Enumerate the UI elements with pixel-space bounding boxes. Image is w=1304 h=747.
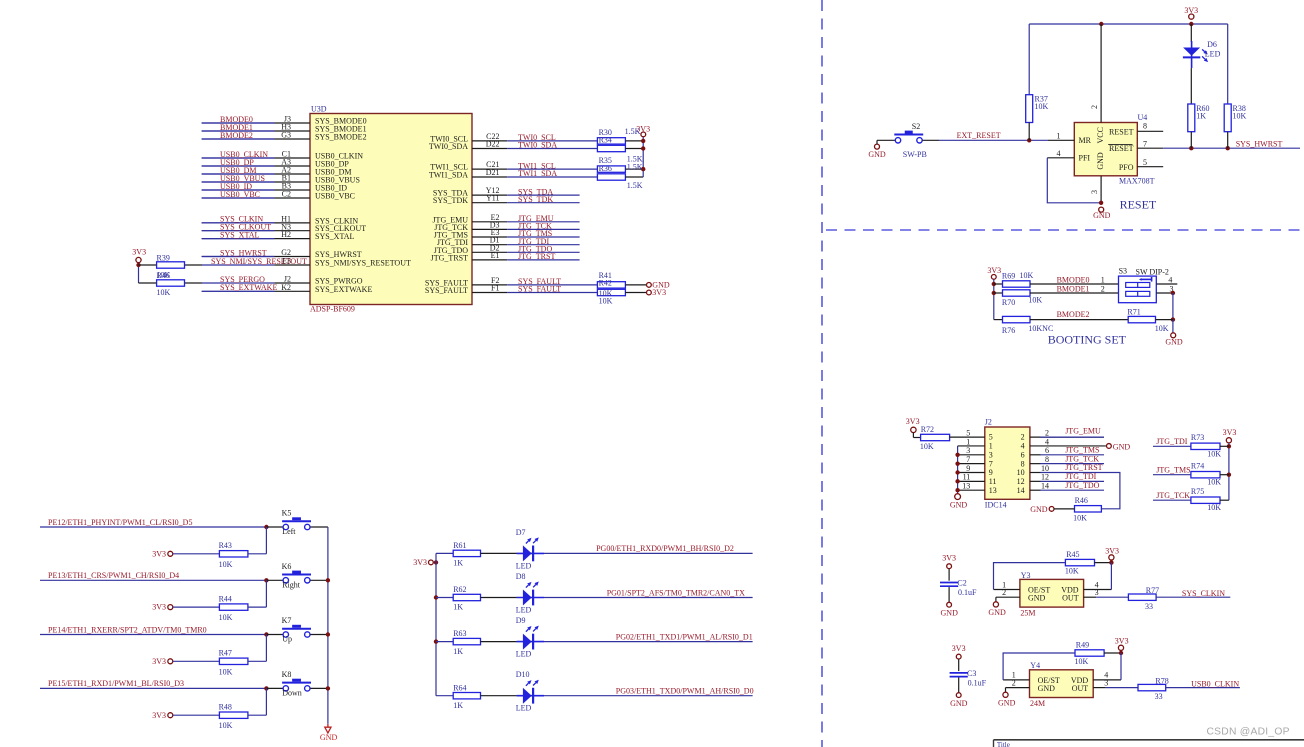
svg-text:K5: K5 — [282, 509, 292, 518]
svg-text:GND: GND — [950, 501, 968, 510]
svg-text:1K: 1K — [453, 701, 463, 710]
svg-text:R71: R71 — [1127, 308, 1140, 317]
svg-text:GND: GND — [868, 150, 886, 159]
svg-text:3V3: 3V3 — [152, 711, 166, 720]
svg-text:R34: R34 — [599, 136, 612, 145]
svg-text:10K: 10K — [1207, 503, 1221, 512]
svg-text:R75: R75 — [1191, 487, 1204, 496]
svg-text:1.5K: 1.5K — [627, 181, 643, 190]
svg-text:R70: R70 — [1002, 298, 1015, 307]
svg-text:MAX708T: MAX708T — [1119, 176, 1155, 185]
svg-text:SW-PB: SW-PB — [903, 150, 927, 159]
svg-text:1K: 1K — [453, 603, 463, 612]
svg-text:K8: K8 — [282, 670, 292, 679]
svg-text:SYS_TDK: SYS_TDK — [433, 196, 468, 205]
svg-text:1: 1 — [966, 437, 970, 446]
svg-text:JTG_TCK: JTG_TCK — [1156, 491, 1190, 500]
svg-text:E3: E3 — [282, 257, 291, 266]
svg-text:GND: GND — [941, 609, 959, 618]
svg-text:JTG_TRST: JTG_TRST — [1065, 463, 1102, 472]
svg-text:SYS_EXTWAKE: SYS_EXTWAKE — [315, 285, 372, 294]
svg-text:R43: R43 — [219, 541, 232, 550]
svg-text:R44: R44 — [219, 594, 232, 603]
svg-text:BMODE2: BMODE2 — [220, 131, 253, 140]
svg-text:10: 10 — [1017, 468, 1025, 477]
svg-text:D22: D22 — [486, 140, 500, 149]
svg-text:USB0_CLKIN: USB0_CLKIN — [1191, 680, 1239, 689]
svg-text:PG01/SPT2_AFS/TM0_TMR2/CAN0_TX: PG01/SPT2_AFS/TM0_TMR2/CAN0_TX — [607, 588, 745, 597]
svg-text:8: 8 — [1045, 455, 1049, 464]
svg-text:3V3: 3V3 — [152, 603, 166, 612]
svg-text:8: 8 — [1143, 121, 1147, 130]
svg-text:SYS_XTAL: SYS_XTAL — [315, 232, 354, 241]
svg-text:SYS_NMI/SYS_RESETOUT: SYS_NMI/SYS_RESETOUT — [315, 259, 411, 268]
svg-text:4: 4 — [1021, 442, 1025, 451]
svg-text:PE14/ETH1_RXERR/SPT2_ATDV/TM0_: PE14/ETH1_RXERR/SPT2_ATDV/TM0_TMR0 — [48, 625, 207, 634]
svg-text:S3: S3 — [1119, 267, 1127, 276]
svg-text:R62: R62 — [453, 585, 466, 594]
svg-text:11: 11 — [963, 473, 971, 482]
svg-text:7: 7 — [966, 455, 970, 464]
svg-text:H2: H2 — [281, 230, 291, 239]
svg-text:1K: 1K — [1196, 112, 1206, 121]
svg-text:9: 9 — [989, 468, 993, 477]
svg-text:33: 33 — [1155, 692, 1163, 701]
svg-text:LED: LED — [1205, 49, 1221, 58]
svg-text:3V3: 3V3 — [906, 417, 920, 426]
svg-text:14: 14 — [1017, 486, 1025, 495]
svg-text:GND: GND — [1096, 152, 1105, 170]
svg-text:33: 33 — [1145, 602, 1153, 611]
svg-text:JTG_TDO: JTG_TDO — [1065, 481, 1099, 490]
svg-text:PE12/ETH1_PHYINT/PWM1_CL/RSI0_: PE12/ETH1_PHYINT/PWM1_CL/RSI0_D5 — [48, 518, 192, 527]
svg-text:3: 3 — [1095, 588, 1099, 597]
svg-text:Title: Title — [997, 741, 1010, 747]
svg-text:3V3: 3V3 — [152, 549, 166, 558]
svg-text:JTG_TRST: JTG_TRST — [431, 253, 468, 262]
svg-text:CSDN @ADI_OP: CSDN @ADI_OP — [1207, 727, 1290, 738]
svg-text:2: 2 — [1045, 428, 1049, 437]
svg-text:3: 3 — [1104, 678, 1108, 687]
svg-text:6: 6 — [1045, 446, 1049, 455]
svg-text:5: 5 — [989, 433, 993, 442]
svg-text:LED: LED — [516, 650, 532, 659]
svg-text:R64: R64 — [453, 683, 466, 692]
svg-text:R77: R77 — [1146, 586, 1159, 595]
svg-text:GND: GND — [998, 698, 1016, 707]
svg-text:G3: G3 — [281, 131, 291, 140]
svg-text:JTG_TMS: JTG_TMS — [1065, 445, 1099, 454]
svg-text:13: 13 — [962, 482, 970, 491]
svg-text:10K: 10K — [1155, 324, 1169, 333]
svg-text:6: 6 — [1021, 450, 1025, 459]
svg-text:5: 5 — [966, 428, 970, 437]
svg-text:D8: D8 — [516, 572, 526, 581]
svg-text:3V3: 3V3 — [1115, 637, 1129, 646]
svg-text:R46: R46 — [1075, 496, 1088, 505]
svg-text:SW DIP-2: SW DIP-2 — [1136, 267, 1169, 276]
svg-text:10K: 10K — [1207, 478, 1221, 487]
svg-text:13: 13 — [989, 486, 997, 495]
svg-text:LED: LED — [516, 704, 532, 713]
svg-text:OUT: OUT — [1072, 684, 1089, 693]
svg-text:10K: 10K — [1065, 567, 1079, 576]
svg-text:Up: Up — [282, 635, 292, 644]
svg-text:Y11: Y11 — [486, 194, 499, 203]
svg-text:10KNC: 10KNC — [1028, 324, 1053, 333]
svg-text:BOOTING SET: BOOTING SET — [1048, 333, 1127, 347]
svg-text:GND: GND — [1028, 593, 1046, 602]
svg-text:C2: C2 — [957, 579, 966, 588]
svg-text:3V3: 3V3 — [413, 558, 427, 567]
svg-text:1: 1 — [1057, 131, 1061, 140]
svg-text:D7: D7 — [516, 528, 526, 537]
svg-text:R69: R69 — [1002, 271, 1015, 280]
svg-text:2: 2 — [1090, 105, 1099, 109]
svg-text:3V3: 3V3 — [152, 657, 166, 666]
svg-text:TWI0_SDA: TWI0_SDA — [429, 142, 468, 151]
svg-text:3V3: 3V3 — [1184, 6, 1198, 15]
svg-text:14: 14 — [1041, 482, 1049, 491]
svg-text:4: 4 — [1045, 437, 1049, 446]
svg-text:Left: Left — [282, 527, 296, 536]
svg-text:3V3: 3V3 — [1105, 546, 1119, 555]
svg-text:2: 2 — [1021, 433, 1025, 442]
svg-text:1.5K: 1.5K — [627, 163, 643, 172]
svg-text:1: 1 — [1101, 275, 1105, 284]
svg-text:Right: Right — [282, 580, 301, 589]
svg-text:10K: 10K — [157, 288, 171, 297]
svg-text:JTG_TDI: JTG_TDI — [1156, 437, 1187, 446]
svg-text:1K: 1K — [453, 559, 463, 568]
svg-text:TWI1_SDA: TWI1_SDA — [429, 171, 468, 180]
svg-text:0.1uF: 0.1uF — [958, 588, 977, 597]
svg-text:JTG_TDI: JTG_TDI — [1065, 472, 1096, 481]
svg-text:10K: 10K — [1073, 513, 1087, 522]
svg-text:Y4: Y4 — [1030, 661, 1040, 670]
svg-text:10K: 10K — [1075, 657, 1089, 666]
svg-text:EXT_RESET: EXT_RESET — [957, 131, 1001, 140]
svg-text:SYS_EXTWAKE: SYS_EXTWAKE — [220, 283, 277, 292]
svg-text:OUT: OUT — [1062, 593, 1079, 602]
svg-text:USB0_VBC: USB0_VBC — [315, 192, 355, 201]
svg-text:2: 2 — [1101, 284, 1105, 293]
svg-text:R45: R45 — [1066, 550, 1079, 559]
svg-text:JTG_TCK: JTG_TCK — [1065, 454, 1099, 463]
svg-text:0.1uF: 0.1uF — [968, 678, 987, 687]
svg-text:3V3: 3V3 — [652, 288, 666, 297]
svg-text:D21: D21 — [486, 168, 500, 177]
svg-text:R63: R63 — [453, 629, 466, 638]
svg-text:PFI: PFI — [1079, 153, 1091, 162]
svg-text:10K: 10K — [219, 613, 233, 622]
svg-text:PE15/ETH1_RXD1/PWM1_BL/RSI0_D3: PE15/ETH1_RXD1/PWM1_BL/RSI0_D3 — [48, 679, 184, 688]
svg-text:R73: R73 — [1191, 433, 1204, 442]
svg-text:10K: 10K — [599, 297, 613, 306]
svg-text:BMODE0: BMODE0 — [1057, 275, 1090, 284]
svg-text:E1: E1 — [491, 251, 500, 260]
svg-text:C3: C3 — [967, 669, 976, 678]
svg-text:PG00/ETH1_RXD0/PWM1_BH/RSI0_D2: PG00/ETH1_RXD0/PWM1_BH/RSI0_D2 — [596, 544, 734, 553]
svg-text:SYS_XTAL: SYS_XTAL — [220, 230, 259, 239]
svg-text:10K: 10K — [1207, 449, 1221, 458]
svg-text:BMODE1: BMODE1 — [1057, 284, 1090, 293]
svg-text:R42: R42 — [599, 279, 612, 288]
svg-text:R46: R46 — [157, 271, 170, 280]
svg-text:IDC14: IDC14 — [985, 501, 1007, 510]
svg-text:3V3: 3V3 — [952, 644, 966, 653]
svg-text:R76: R76 — [1002, 326, 1015, 335]
svg-text:D9: D9 — [516, 616, 526, 625]
svg-text:7: 7 — [989, 459, 993, 468]
svg-text:GND: GND — [950, 699, 968, 708]
svg-text:K7: K7 — [282, 616, 292, 625]
svg-text:10K: 10K — [219, 721, 233, 730]
svg-text:GND: GND — [1165, 338, 1183, 347]
svg-text:SYS_HWRST: SYS_HWRST — [1236, 139, 1283, 148]
svg-text:3: 3 — [1090, 190, 1099, 194]
svg-text:12: 12 — [1017, 477, 1025, 486]
svg-text:F1: F1 — [491, 284, 499, 293]
svg-text:SYS_FAULT: SYS_FAULT — [425, 286, 468, 295]
svg-text:11: 11 — [989, 477, 997, 486]
svg-text:RESET: RESET — [1120, 198, 1157, 212]
svg-text:10K: 10K — [1028, 296, 1042, 305]
svg-text:R39: R39 — [157, 254, 170, 263]
svg-text:GND: GND — [1030, 505, 1048, 514]
svg-text:BMODE2: BMODE2 — [1057, 310, 1090, 319]
svg-text:2: 2 — [1002, 588, 1006, 597]
svg-text:3V3: 3V3 — [132, 248, 146, 257]
svg-text:K2: K2 — [281, 283, 291, 292]
svg-text:GND: GND — [988, 608, 1006, 617]
svg-text:LED: LED — [516, 605, 532, 614]
svg-text:C2: C2 — [282, 190, 291, 199]
svg-text:K6: K6 — [282, 562, 292, 571]
svg-text:PG02/ETH1_TXD1/PWM1_AL/RSI0_D1: PG02/ETH1_TXD1/PWM1_AL/RSI0_D1 — [616, 632, 753, 641]
svg-text:RESET: RESET — [1109, 144, 1134, 153]
svg-text:5: 5 — [1143, 158, 1147, 167]
svg-text:MR: MR — [1079, 136, 1092, 145]
svg-text:PFO: PFO — [1119, 163, 1134, 172]
svg-text:3V3: 3V3 — [1223, 428, 1237, 437]
svg-text:3: 3 — [989, 450, 993, 459]
svg-text:PG03/ETH1_TXD0/PWM1_AH/RSI0_D0: PG03/ETH1_TXD0/PWM1_AH/RSI0_D0 — [616, 687, 754, 696]
svg-text:10K: 10K — [920, 442, 934, 451]
svg-text:SYS_NMI/SYS_RESETOUT: SYS_NMI/SYS_RESETOUT — [211, 257, 307, 266]
svg-text:GND: GND — [1038, 684, 1056, 693]
svg-text:3V3: 3V3 — [987, 266, 1001, 275]
svg-text:8: 8 — [1021, 459, 1025, 468]
svg-text:Down: Down — [282, 689, 302, 698]
svg-text:3: 3 — [966, 446, 970, 455]
svg-text:PE13/ETH1_CRS/PWM1_CH/RSI0_D4: PE13/ETH1_CRS/PWM1_CH/RSI0_D4 — [48, 571, 179, 580]
svg-text:10K: 10K — [219, 560, 233, 569]
svg-text:1K: 1K — [453, 647, 463, 656]
svg-text:R49: R49 — [1076, 641, 1089, 650]
svg-text:JTG_EMU: JTG_EMU — [1065, 426, 1101, 435]
svg-text:S2: S2 — [912, 122, 920, 131]
svg-text:7: 7 — [1143, 140, 1147, 149]
svg-text:3V3: 3V3 — [942, 554, 956, 563]
svg-text:10K: 10K — [1020, 271, 1034, 280]
svg-text:SYS_CLKIN: SYS_CLKIN — [1182, 589, 1225, 598]
svg-text:1.5K: 1.5K — [625, 127, 641, 136]
svg-text:R78: R78 — [1155, 677, 1168, 686]
svg-text:GND: GND — [1113, 442, 1131, 451]
svg-text:ADSP-BF609: ADSP-BF609 — [310, 305, 355, 314]
svg-text:U3D: U3D — [311, 105, 327, 114]
svg-text:10K: 10K — [1035, 102, 1049, 111]
svg-text:9: 9 — [966, 464, 970, 473]
svg-text:R74: R74 — [1191, 461, 1204, 470]
svg-text:10K: 10K — [219, 667, 233, 676]
svg-text:VCC: VCC — [1096, 127, 1105, 143]
svg-text:D6: D6 — [1207, 40, 1217, 49]
svg-text:25M: 25M — [1020, 609, 1035, 618]
svg-text:R61: R61 — [453, 541, 466, 550]
svg-text:24M: 24M — [1030, 699, 1045, 708]
svg-text:JTG_TMS: JTG_TMS — [1156, 465, 1190, 474]
svg-text:4: 4 — [1057, 149, 1061, 158]
svg-text:4: 4 — [1168, 275, 1172, 284]
svg-text:2: 2 — [1012, 678, 1016, 687]
svg-text:D10: D10 — [516, 670, 530, 679]
svg-text:RESET: RESET — [1109, 128, 1134, 137]
svg-text:J2: J2 — [985, 418, 992, 427]
svg-text:GND: GND — [320, 733, 338, 742]
svg-text:R48: R48 — [219, 702, 232, 711]
svg-text:GND: GND — [1093, 211, 1111, 220]
svg-text:SYS_BMODE2: SYS_BMODE2 — [315, 133, 367, 142]
svg-text:1: 1 — [989, 442, 993, 451]
svg-text:USB0_VBC: USB0_VBC — [220, 190, 260, 199]
svg-text:R72: R72 — [921, 425, 934, 434]
svg-text:LED: LED — [516, 561, 532, 570]
svg-text:10K: 10K — [1233, 112, 1247, 121]
svg-text:10: 10 — [1041, 464, 1049, 473]
svg-text:12: 12 — [1041, 473, 1049, 482]
svg-text:R36: R36 — [599, 164, 612, 173]
svg-text:Y3: Y3 — [1021, 571, 1031, 580]
svg-text:R47: R47 — [219, 649, 232, 658]
